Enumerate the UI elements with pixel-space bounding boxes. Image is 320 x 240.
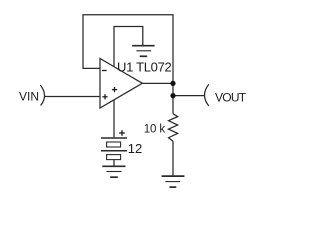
port VOUT arc [205, 84, 209, 106]
wire node to resistor [172, 96, 174, 114]
wire output node down to VOUT branch [172, 83, 174, 95]
svg-text:U1 TL072: U1 TL072 [117, 59, 172, 74]
ground (top, op-amp negative supply) [132, 46, 155, 57]
op-amp positive supply marker [112, 87, 117, 92]
resistor R1 10k [169, 114, 178, 142]
wire feedback loop (output to inverting input) [83, 15, 173, 84]
wire op-amp V- pin to ground [114, 27, 143, 67]
battery plus marker [119, 130, 125, 136]
op-amp minus input marker [102, 70, 107, 72]
ground (bottom right, under resistor) [162, 176, 185, 187]
battery V1 12V [101, 138, 127, 166]
wire VOUT branch [173, 95, 204, 97]
wire op-amp output to node [142, 82, 173, 84]
op-amp plus input marker [102, 94, 107, 99]
svg-text:VOUT: VOUT [215, 90, 247, 104]
svg-text:VIN: VIN [19, 90, 39, 104]
svg-text:10 k: 10 k [144, 124, 166, 136]
junction dot VOUT/resistor node [170, 93, 175, 98]
op-amp U1 [100, 59, 142, 109]
wire resistor to ground [172, 141, 174, 176]
port VIN arc [40, 85, 44, 106]
ground (under battery) [102, 166, 125, 177]
junction dot output node [170, 81, 175, 86]
wire op-amp V+ pin to battery [113, 100, 115, 138]
wire VIN to non-inverting input [45, 96, 100, 98]
svg-text:12: 12 [128, 141, 142, 156]
